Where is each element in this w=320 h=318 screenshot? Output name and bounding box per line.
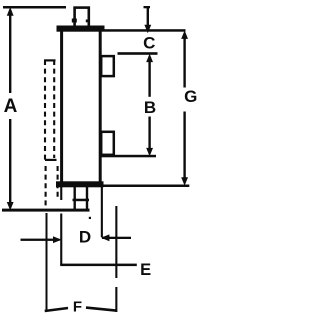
top stud [75,8,89,27]
arrowhead A top [7,7,14,16]
upper terminal (right side) [101,56,114,76]
stud right nub [86,20,89,23]
dimension D right arrow [102,237,131,239]
body outline [62,28,101,184]
hidden bracket dashed drop right [57,166,59,200]
hidden bracket right edge [53,60,55,158]
dimension line F [45,308,68,311]
stud left nub [72,19,77,23]
dimension line A (vertical, left) [9,10,11,93]
body bottom cap (thick bar) [56,181,104,187]
stray scan dot [89,217,91,219]
extension line: F left reference [46,213,48,312]
extension line: bottom reference for A [2,209,90,212]
bottom stud [74,187,76,211]
hidden bracket (dashed rectangle) left edge [44,60,46,161]
hidden bracket dashed drop left [45,166,47,208]
lower terminal (right side) [101,132,114,155]
extension line: cap bottom to G (bottom right horizontal) [104,185,190,188]
dimension line E [60,264,137,267]
hidden bracket top edge [44,59,56,61]
svg-text:G: G [184,87,197,106]
svg-text:D: D [79,227,91,246]
extension line: terminal top to B [118,52,158,55]
arrowhead A bottom [7,202,14,211]
dimension C line (top right) [144,6,151,8]
dimension line B [148,61,150,97]
svg-text:F: F [73,299,82,316]
body top cap (thick bar) [57,26,105,32]
extension line: body left edge drop (stub below cap) [60,187,62,200]
svg-text:B: B [144,98,156,117]
extension line: stud-top to A (top left) [3,6,66,9]
dimension line G [183,37,185,88]
svg-text:E: E [140,261,151,279]
extension line: body right edge drop [101,187,103,237]
svg-text:C: C [143,34,155,53]
svg-text:A: A [4,96,18,117]
dimension D left arrow [21,239,60,241]
extension line: body left edge down to E corner [60,214,62,266]
extension line: terminal bottom to B [101,155,156,158]
hidden bracket bottom edge [45,159,57,161]
extension line: cap top to G (top right horizontal) [105,29,186,32]
extension line: terminal right edge drop (down to F corner) [115,206,117,278]
